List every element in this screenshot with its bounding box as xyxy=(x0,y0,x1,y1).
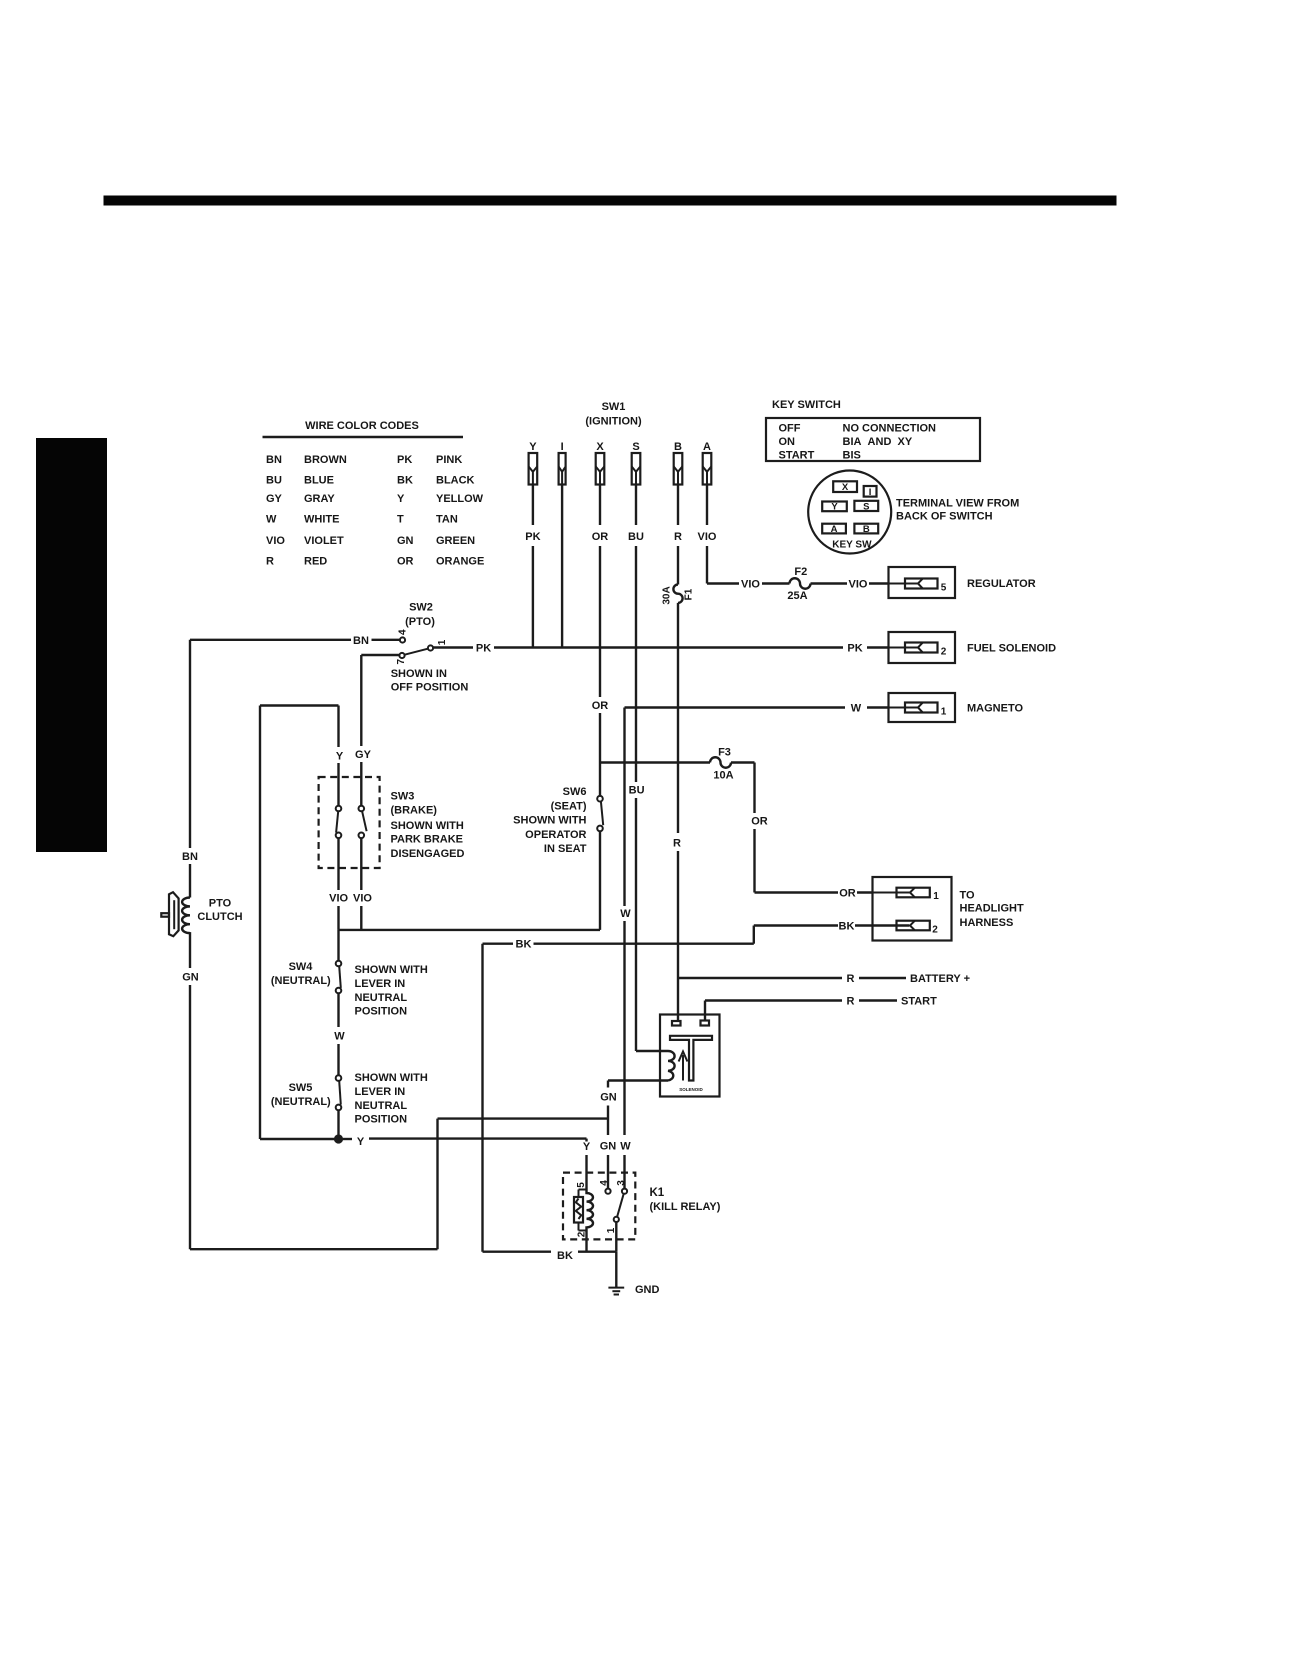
svg-text:W: W xyxy=(620,908,631,920)
svg-text:Y: Y xyxy=(831,502,838,513)
svg-text:3: 3 xyxy=(616,1180,627,1186)
svg-text:OFF: OFF xyxy=(779,423,801,435)
connector SW1 pin X terminal xyxy=(596,441,605,485)
svg-text:DISENGAGED: DISENGAGED xyxy=(391,848,465,860)
wire Y from neutral loop to SW3 xyxy=(260,706,344,1140)
switch SW2 pin 7 and arm xyxy=(396,649,428,665)
junction node Y xyxy=(334,1134,343,1143)
switch SW3 left pole xyxy=(336,806,342,838)
svg-text:1: 1 xyxy=(941,707,947,718)
svg-text:VIOLET: VIOLET xyxy=(304,535,344,547)
left margin tab xyxy=(36,438,107,852)
svg-text:TERMINAL VIEW FROM: TERMINAL VIEW FROM xyxy=(896,497,1019,509)
svg-text:BN: BN xyxy=(182,851,198,863)
wire from SW1 pin I xyxy=(561,485,563,648)
svg-text:REGULATOR: REGULATOR xyxy=(967,578,1036,590)
svg-text:PK: PK xyxy=(847,642,862,654)
svg-text:BK: BK xyxy=(397,474,413,486)
connector magneto pin 1 xyxy=(889,693,1024,722)
svg-text:GRAY: GRAY xyxy=(304,493,335,505)
svg-text:SHOWN WITH: SHOWN WITH xyxy=(391,820,464,832)
svg-text:RED: RED xyxy=(304,556,327,568)
svg-text:NEUTRAL: NEUTRAL xyxy=(355,1100,408,1112)
svg-text:START: START xyxy=(901,996,937,1008)
PTO clutch armature plate xyxy=(161,892,178,936)
switch SW2 pin 4 xyxy=(398,629,409,643)
svg-text:PTO: PTO xyxy=(209,898,232,910)
svg-text:BK: BK xyxy=(557,1250,573,1262)
ground symbol GND xyxy=(608,1284,659,1296)
wire R to start xyxy=(705,995,937,1020)
connector regulator pin 5 xyxy=(889,567,1036,598)
svg-text:CLUTCH: CLUTCH xyxy=(197,911,242,923)
switch SW2 pin 1 xyxy=(428,639,448,650)
svg-text:GY: GY xyxy=(355,749,372,761)
svg-text:F3: F3 xyxy=(718,746,731,758)
svg-text:X: X xyxy=(842,482,849,493)
wire BU from SW1 pin S xyxy=(628,485,645,1052)
wire W vertical xyxy=(620,708,631,1189)
svg-text:1: 1 xyxy=(933,891,939,902)
svg-text:SOLENOID: SOLENOID xyxy=(679,1087,703,1092)
relay K1 dashed box xyxy=(563,1173,635,1240)
svg-text:BIA AND XY: BIA AND XY xyxy=(843,436,913,448)
switch SW6 (seat) xyxy=(597,796,603,831)
svg-text:B: B xyxy=(863,524,870,535)
connector SW1 pin S terminal xyxy=(632,441,641,485)
svg-text:5: 5 xyxy=(941,583,947,594)
svg-text:POSITION: POSITION xyxy=(355,1005,408,1017)
svg-text:VIO: VIO xyxy=(266,535,285,547)
svg-text:SHOWN WITH: SHOWN WITH xyxy=(513,815,586,827)
fuse F3 10A xyxy=(710,746,755,781)
wire R to battery + xyxy=(678,973,970,985)
svg-text:B: B xyxy=(674,441,682,453)
connector SW1 pin B terminal xyxy=(674,441,683,485)
svg-text:HEADLIGHT: HEADLIGHT xyxy=(960,902,1024,914)
switch SW2 (PTO) label xyxy=(405,602,435,629)
svg-text:SW5: SW5 xyxy=(289,1082,313,1094)
svg-text:R: R xyxy=(673,838,681,850)
svg-text:SHOWN WITH: SHOWN WITH xyxy=(355,1072,428,1084)
svg-text:NO CONNECTION: NO CONNECTION xyxy=(843,423,937,435)
page top rule xyxy=(104,196,1117,206)
svg-text:(SEAT): (SEAT) xyxy=(551,800,587,812)
svg-text:SW2: SW2 xyxy=(409,602,433,614)
connector SW1 pin I terminal xyxy=(559,441,566,485)
switch SW3 right pole xyxy=(359,806,367,838)
wire R from SW1 pin B xyxy=(674,485,682,585)
svg-text:(NEUTRAL): (NEUTRAL) xyxy=(271,1096,331,1108)
svg-text:BACK OF SWITCH: BACK OF SWITCH xyxy=(896,511,993,523)
svg-text:R: R xyxy=(674,531,682,543)
svg-text:I: I xyxy=(561,441,564,453)
wire PK from SW1 pin Y xyxy=(525,485,540,648)
svg-text:OR: OR xyxy=(839,887,856,899)
svg-text:VIO: VIO xyxy=(741,578,760,590)
svg-text:25A: 25A xyxy=(787,590,807,602)
svg-text:(NEUTRAL): (NEUTRAL) xyxy=(271,975,331,987)
connector SW1 pin Y terminal xyxy=(529,441,538,485)
wire BN from PTO clutch to SW2 pin 4 xyxy=(190,635,400,647)
svg-text:HARNESS: HARNESS xyxy=(960,917,1014,929)
wire OR vertical to headlight harness xyxy=(751,763,909,900)
wire color codes table title xyxy=(263,420,464,437)
svg-text:S: S xyxy=(863,501,869,512)
svg-text:BLACK: BLACK xyxy=(436,474,475,486)
wire from SW6 to brake switches xyxy=(339,831,601,930)
svg-text:1: 1 xyxy=(437,639,448,645)
wire W between SW4 and SW5 xyxy=(334,993,345,1075)
svg-text:W: W xyxy=(620,1141,631,1153)
svg-text:10A: 10A xyxy=(713,770,733,782)
PTO clutch coil xyxy=(182,897,190,933)
svg-text:4: 4 xyxy=(398,629,409,635)
svg-text:PK: PK xyxy=(476,642,491,654)
svg-text:GND: GND xyxy=(635,1284,660,1296)
wire VIO from fuse F2 to regulator xyxy=(811,578,918,590)
svg-text:(IGNITION): (IGNITION) xyxy=(585,416,642,428)
svg-text:NEUTRAL: NEUTRAL xyxy=(355,992,408,1004)
svg-text:BIS: BIS xyxy=(843,450,861,462)
svg-text:TO: TO xyxy=(960,889,976,901)
PTO clutch caption xyxy=(197,898,242,924)
svg-text:GN: GN xyxy=(600,1141,617,1153)
svg-text:BN: BN xyxy=(266,454,282,466)
svg-text:SW3: SW3 xyxy=(391,790,415,802)
wire OR from SW1 pin X xyxy=(592,485,609,797)
svg-text:BATTERY +: BATTERY + xyxy=(910,973,970,985)
wire VIO from SW1 pin A xyxy=(698,485,790,591)
SW2 caption shown in off position xyxy=(391,668,469,694)
svg-text:(PTO): (PTO) xyxy=(405,616,435,628)
fuse F1 30A xyxy=(662,585,695,605)
svg-text:FUEL SOLENOID: FUEL SOLENOID xyxy=(967,643,1056,655)
svg-text:F2: F2 xyxy=(794,566,807,578)
svg-text:POSITION: POSITION xyxy=(355,1113,408,1125)
relay K1 pin 4 contact xyxy=(599,1180,611,1194)
svg-text:PK: PK xyxy=(525,531,540,543)
wire BK to headlight harness pin 2 xyxy=(483,920,910,943)
wire R below fuse F1 xyxy=(673,603,681,1021)
svg-text:ORANGE: ORANGE xyxy=(436,556,484,568)
SW3 caption xyxy=(391,790,465,860)
svg-text:S: S xyxy=(632,441,639,453)
svg-text:VIO: VIO xyxy=(353,893,372,905)
wire BK bottom to kill relay and ground xyxy=(483,1250,617,1287)
wire GY from SW2 pin 7 to SW3 xyxy=(355,655,399,806)
svg-text:KEY SWITCH: KEY SWITCH xyxy=(772,399,841,411)
svg-text:LEVER IN: LEVER IN xyxy=(355,978,406,990)
svg-text:OR: OR xyxy=(751,816,768,828)
svg-text:BN: BN xyxy=(353,635,369,647)
starter solenoid box xyxy=(660,1015,720,1097)
connector fuel solenoid pin 2 xyxy=(889,632,1057,663)
svg-text:BROWN: BROWN xyxy=(304,454,347,466)
wire PK label on fuel solenoid lead xyxy=(843,639,867,654)
svg-text:MAGNETO: MAGNETO xyxy=(967,703,1023,715)
svg-text:KEY SW: KEY SW xyxy=(832,540,872,551)
svg-text:OR: OR xyxy=(397,556,414,568)
svg-text:START: START xyxy=(779,450,815,462)
svg-text:A: A xyxy=(703,441,711,453)
svg-text:W: W xyxy=(851,702,862,714)
svg-text:BU: BU xyxy=(629,785,645,797)
connector SW1 pin A terminal xyxy=(703,441,712,485)
svg-text:VIO: VIO xyxy=(329,893,348,905)
switch SW4 (neutral) xyxy=(336,930,342,993)
svg-text:R: R xyxy=(847,995,855,1007)
connector to headlight harness xyxy=(873,877,1024,941)
svg-text:BK: BK xyxy=(516,939,532,951)
svg-text:5: 5 xyxy=(576,1182,587,1188)
svg-text:SW6: SW6 xyxy=(563,786,587,798)
connector SW1 (ignition) label xyxy=(585,401,642,428)
wire F3 branch from OR xyxy=(600,761,710,763)
svg-text:OFF POSITION: OFF POSITION xyxy=(391,682,469,694)
svg-text:OR: OR xyxy=(592,700,609,712)
svg-text:PINK: PINK xyxy=(436,454,462,466)
svg-text:Y: Y xyxy=(529,441,537,453)
svg-text:BLUE: BLUE xyxy=(304,474,334,486)
relay K1 pin 3 contact and arm xyxy=(616,1180,627,1217)
svg-text:7: 7 xyxy=(396,658,407,664)
svg-text:BU: BU xyxy=(266,474,282,486)
svg-text:(BRAKE): (BRAKE) xyxy=(391,805,438,817)
wire VIO from SW3 right pole xyxy=(353,838,372,930)
svg-text:VIO: VIO xyxy=(849,578,868,590)
SW5 caption xyxy=(271,1072,428,1125)
wire VIO from SW3 left pole xyxy=(329,838,348,930)
svg-text:IN SEAT: IN SEAT xyxy=(544,843,587,855)
svg-text:OPERATOR: OPERATOR xyxy=(525,829,586,841)
svg-text:GY: GY xyxy=(266,493,283,505)
key switch legend table xyxy=(766,399,980,462)
svg-text:SHOWN IN: SHOWN IN xyxy=(391,668,447,680)
wire Y from junction to kill relay xyxy=(343,1136,591,1190)
svg-text:PK: PK xyxy=(397,454,412,466)
svg-text:OR: OR xyxy=(592,531,609,543)
wire PK horizontal to fuel solenoid xyxy=(433,642,918,654)
switch SW3 (brake) dashed box xyxy=(319,777,380,868)
relay K1 caption xyxy=(650,1187,721,1213)
svg-text:ON: ON xyxy=(779,436,796,448)
svg-text:(KILL RELAY): (KILL RELAY) xyxy=(650,1201,721,1213)
svg-text:W: W xyxy=(334,1030,345,1042)
svg-text:GN: GN xyxy=(600,1092,617,1104)
relay K1 pin 1 contact xyxy=(606,1217,619,1252)
svg-text:SW1: SW1 xyxy=(602,401,626,413)
wire color codes table rows xyxy=(266,454,484,568)
svg-text:W: W xyxy=(266,514,277,526)
svg-text:VIO: VIO xyxy=(698,531,717,543)
relay K1 coil and resistor xyxy=(574,1190,593,1231)
svg-text:Y: Y xyxy=(357,1136,365,1148)
svg-text:I: I xyxy=(869,487,872,498)
svg-text:YELLOW: YELLOW xyxy=(436,493,484,505)
svg-text:PARK BRAKE: PARK BRAKE xyxy=(391,834,464,846)
svg-text:SW4: SW4 xyxy=(289,961,314,973)
svg-text:Y: Y xyxy=(397,493,405,505)
svg-text:R: R xyxy=(266,556,274,568)
svg-text:LEVER IN: LEVER IN xyxy=(355,1086,406,1098)
svg-text:WIRE COLOR CODES: WIRE COLOR CODES xyxy=(305,420,419,432)
svg-text:BK: BK xyxy=(839,920,855,932)
svg-text:TAN: TAN xyxy=(436,514,458,526)
svg-text:Y: Y xyxy=(336,751,344,763)
svg-text:GREEN: GREEN xyxy=(436,535,475,547)
svg-text:GN: GN xyxy=(182,972,199,984)
svg-text:R: R xyxy=(847,973,855,985)
svg-text:K1: K1 xyxy=(650,1187,665,1199)
svg-text:2: 2 xyxy=(941,647,947,658)
svg-text:WHITE: WHITE xyxy=(304,514,339,526)
SW4 caption xyxy=(271,961,428,1017)
wire BK label near junction xyxy=(483,939,532,1252)
relay K1 pin 2 xyxy=(577,1231,588,1252)
svg-text:T: T xyxy=(397,514,404,526)
terminal view caption xyxy=(896,497,1019,522)
svg-text:X: X xyxy=(596,441,604,453)
wire BU into solenoid coil xyxy=(636,1050,668,1052)
SW6 caption xyxy=(513,786,587,855)
fuse F2 25A xyxy=(787,566,810,602)
svg-text:F1: F1 xyxy=(684,588,695,600)
svg-text:2: 2 xyxy=(932,925,938,936)
switch SW5 (neutral) xyxy=(336,1075,342,1139)
key switch terminal view circle xyxy=(808,471,891,554)
svg-text:Y: Y xyxy=(583,1141,591,1153)
wire BN vertical to PTO clutch xyxy=(182,640,198,898)
wire W label on magneto lead xyxy=(845,699,867,714)
svg-text:30A: 30A xyxy=(662,586,673,604)
svg-text:BU: BU xyxy=(628,531,644,543)
wire GN from solenoid coil xyxy=(600,1081,668,1189)
svg-text:A: A xyxy=(831,524,838,535)
svg-text:4: 4 xyxy=(599,1180,610,1186)
svg-text:SHOWN WITH: SHOWN WITH xyxy=(355,964,428,976)
wire W horizontal to magneto xyxy=(625,706,918,708)
svg-text:GN: GN xyxy=(397,535,414,547)
wire GN from PTO clutch xyxy=(182,932,608,1249)
